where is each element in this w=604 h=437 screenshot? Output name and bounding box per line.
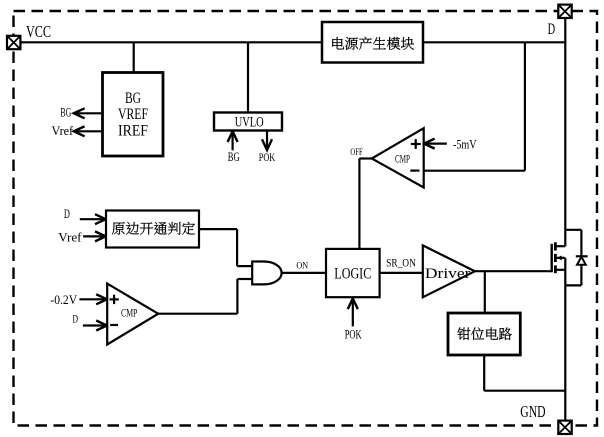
svg-text:GND: GND bbox=[520, 402, 545, 421]
svg-text:BG: BG bbox=[125, 90, 141, 107]
svg-text:D: D bbox=[64, 206, 70, 221]
svg-text:-5mV: -5mV bbox=[453, 137, 477, 152]
svg-text:CMP: CMP bbox=[121, 306, 138, 320]
svg-text:BG: BG bbox=[60, 105, 71, 119]
svg-text:D: D bbox=[548, 21, 556, 38]
svg-text:CMP: CMP bbox=[395, 152, 410, 166]
svg-text:BG: BG bbox=[228, 150, 240, 164]
svg-text:POK: POK bbox=[345, 327, 362, 341]
svg-text:VREF: VREF bbox=[118, 106, 148, 123]
svg-text:Vref: Vref bbox=[52, 124, 74, 138]
svg-text:OFF: OFF bbox=[350, 148, 362, 158]
svg-text:IREF: IREF bbox=[118, 123, 148, 140]
svg-text:POK: POK bbox=[259, 150, 276, 164]
svg-text:Vref: Vref bbox=[58, 230, 82, 244]
svg-text:-0.2V: -0.2V bbox=[50, 293, 77, 307]
svg-text:Driver: Driver bbox=[425, 266, 471, 282]
svg-text:D: D bbox=[72, 314, 78, 326]
svg-text:VCC: VCC bbox=[26, 22, 51, 41]
svg-text:ON: ON bbox=[296, 262, 308, 272]
svg-text:LOGIC: LOGIC bbox=[334, 266, 371, 283]
svg-text:SR_ON: SR_ON bbox=[386, 256, 416, 270]
svg-text:UVLO: UVLO bbox=[235, 115, 264, 131]
